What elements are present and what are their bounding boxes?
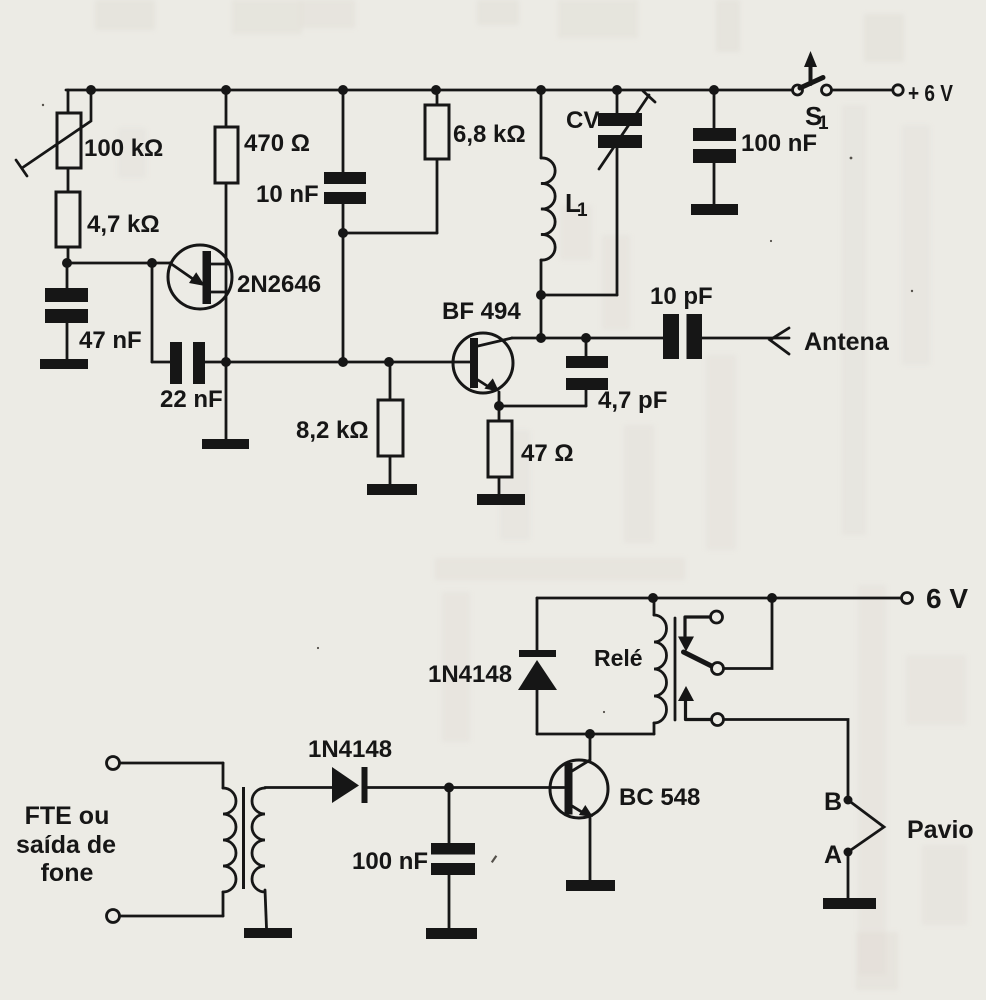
svg-text:47 Ω: 47 Ω [521, 440, 574, 467]
svg-text:1N4148: 1N4148 [428, 661, 512, 688]
svg-text:47 nF: 47 nF [79, 327, 142, 354]
svg-text:FTE ou: FTE ou [25, 802, 110, 830]
svg-text:1N4148: 1N4148 [308, 736, 392, 763]
svg-text:100 nF: 100 nF [741, 130, 817, 157]
svg-text:BC 548: BC 548 [619, 784, 700, 811]
svg-text:+ 6 V: + 6 V [908, 80, 954, 106]
svg-text:6,8 kΩ: 6,8 kΩ [453, 121, 526, 148]
svg-text:22 nF: 22 nF [160, 386, 223, 413]
svg-text:Pavio: Pavio [907, 816, 974, 844]
svg-text:1: 1 [818, 113, 829, 134]
svg-text:B: B [824, 788, 842, 816]
svg-text:470 Ω: 470 Ω [244, 130, 310, 157]
svg-text:100 nF: 100 nF [352, 848, 428, 875]
svg-text:Antena: Antena [804, 328, 890, 356]
svg-text:CV: CV [566, 107, 599, 134]
svg-text:2N2646: 2N2646 [237, 271, 321, 298]
svg-text:4,7 pF: 4,7 pF [598, 387, 667, 414]
svg-text:1: 1 [577, 200, 588, 221]
svg-text:10 nF: 10 nF [256, 181, 319, 208]
svg-text:Relé: Relé [594, 645, 643, 671]
svg-text:100 kΩ: 100 kΩ [84, 135, 163, 162]
svg-text:saída de: saída de [16, 831, 116, 859]
svg-text:fone: fone [41, 859, 94, 887]
svg-text:8,2 kΩ: 8,2 kΩ [296, 417, 369, 444]
svg-text:4,7 kΩ: 4,7 kΩ [87, 211, 160, 238]
svg-text:BF 494: BF 494 [442, 298, 521, 325]
svg-text:10 pF: 10 pF [650, 283, 713, 310]
svg-text:A: A [824, 841, 842, 869]
svg-text:6 V: 6 V [926, 583, 968, 614]
